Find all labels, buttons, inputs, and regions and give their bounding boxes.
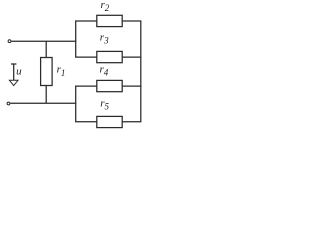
- svg-text:u: u: [16, 66, 22, 78]
